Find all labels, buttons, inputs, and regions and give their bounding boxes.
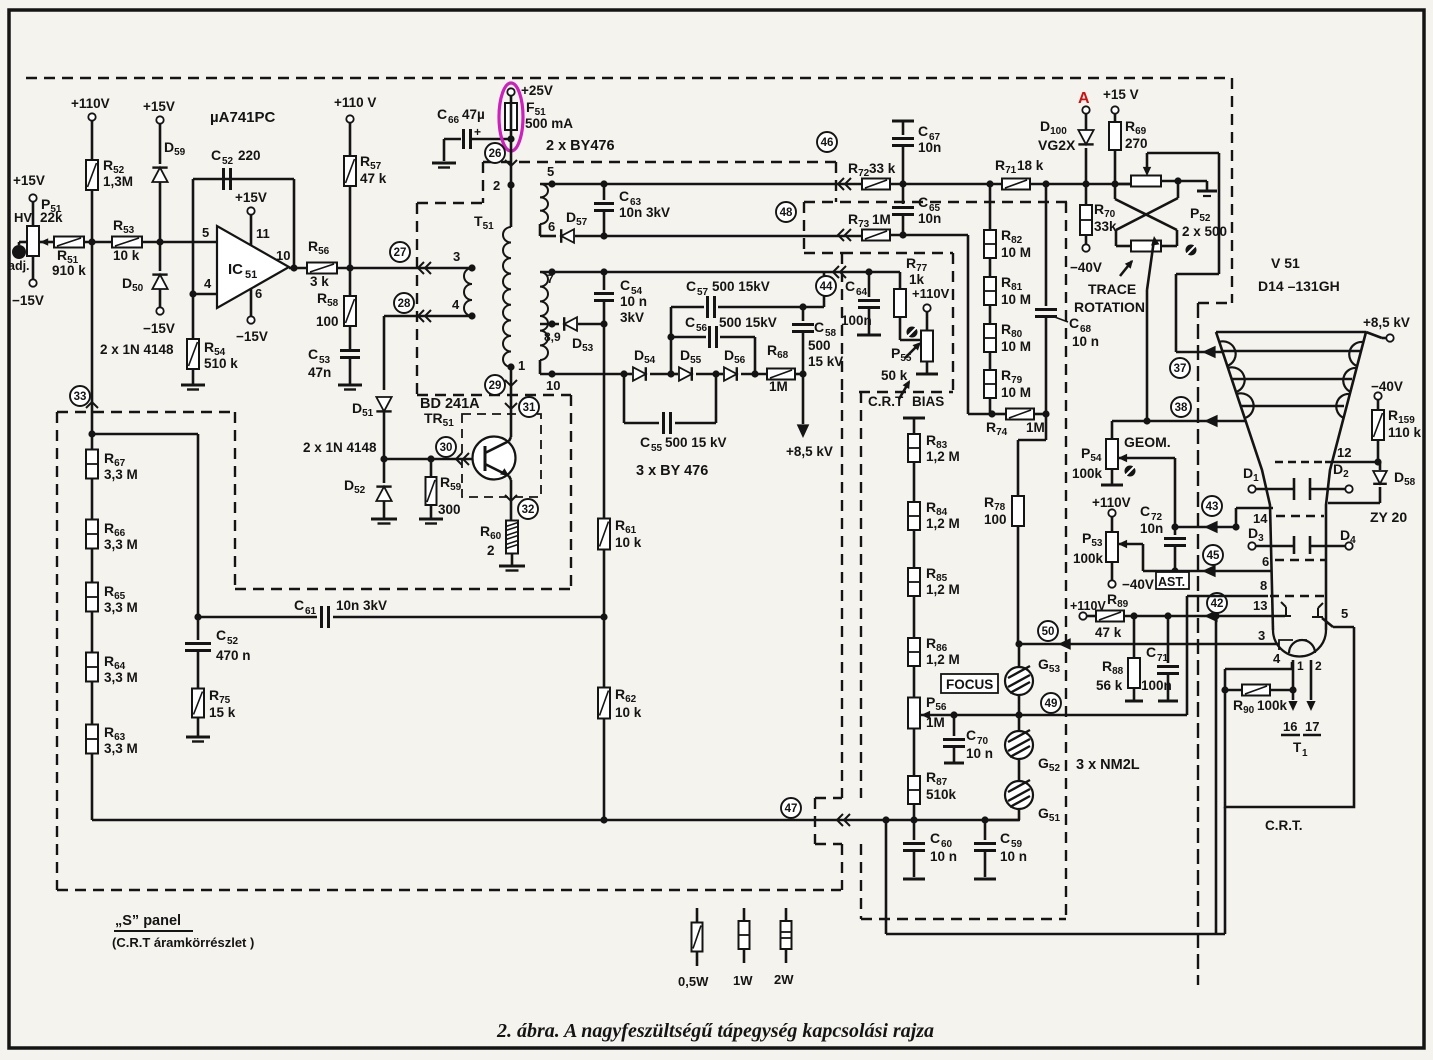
svg-text:10: 10 (546, 378, 560, 393)
svg-text:R57: R57 (360, 153, 382, 172)
node R69 junction (1111, 180, 1118, 187)
svg-text:3 k: 3 k (310, 274, 329, 289)
feedback loop wire (192, 179, 195, 294)
svg-text:51: 51 (245, 269, 257, 281)
dashed oscillator box top edge (417, 202, 483, 204)
resistor R70 33k (1085, 184, 1088, 206)
node chain bottom R74 (988, 410, 995, 417)
terminal +15V D59 column (156, 116, 163, 123)
wire pin6 to D57 (539, 224, 542, 236)
svg-text:2: 2 (487, 543, 495, 558)
node R74 right (1042, 410, 1049, 417)
trace rotation pot P52 lower (1131, 241, 1161, 252)
capacitor C52 220 feedback (222, 168, 225, 190)
svg-text:C: C (640, 434, 650, 450)
resistor R87 510k (908, 776, 920, 804)
diode D58 ZY20 (1379, 462, 1382, 470)
wire line 4 to winding (418, 315, 472, 318)
svg-text:1M: 1M (1026, 420, 1045, 435)
svg-text:6: 6 (1262, 554, 1269, 569)
node 31 circle (519, 397, 539, 417)
svg-text:33: 33 (74, 391, 87, 403)
svg-text:R53: R53 (113, 217, 135, 236)
svg-text:100k: 100k (1257, 698, 1288, 713)
dashed S panel left edge (56, 412, 58, 890)
node C63 top (600, 180, 607, 187)
svg-text:1,2 M: 1,2 M (926, 449, 960, 464)
svg-text:R90: R90 (1233, 697, 1255, 716)
svg-text:43: 43 (1206, 501, 1219, 513)
node C56 right leg (751, 370, 758, 377)
resistor R78 100 (1012, 496, 1024, 526)
svg-text:100k: 100k (1073, 551, 1104, 566)
svg-text:+25V: +25V (521, 83, 553, 98)
svg-text:42: 42 (1211, 598, 1224, 610)
node R82 riser on line (986, 180, 993, 187)
terminal +15V R69 (1111, 106, 1118, 113)
P54 screwdriver adjust (1125, 466, 1136, 477)
capacitor C61 10n 3kV (198, 616, 317, 619)
svg-text:TR51: TR51 (424, 410, 454, 429)
resistor R85 1,2M (908, 568, 920, 596)
svg-text:R80: R80 (1001, 321, 1023, 340)
svg-text:10 k: 10 k (615, 705, 642, 720)
svg-text:500 15 kV: 500 15 kV (665, 435, 727, 450)
base wire to TR51 (384, 458, 485, 461)
svg-text:R88: R88 (1102, 658, 1124, 677)
49 line riser to pin 8 (1186, 596, 1189, 715)
node divider bottom rail (600, 816, 607, 823)
wire fuse node down to T51 primary (510, 139, 513, 227)
riser C57 row to 44 rail (823, 272, 826, 307)
resistor R74 1M (992, 413, 1006, 416)
CRT socket box (1225, 627, 1354, 807)
svg-text:56 k: 56 k (1096, 678, 1123, 693)
dashed panel boundary top (26, 77, 1232, 79)
svg-text:100: 100 (316, 314, 339, 329)
resistor R89 47k (1096, 611, 1124, 622)
svg-text:1,3M: 1,3M (103, 174, 133, 189)
svg-text:C: C (814, 319, 824, 335)
node rail C59 (981, 816, 988, 823)
svg-text:C: C (1146, 644, 1156, 660)
trace rotation pot P52 2x500 upper (1115, 183, 1131, 186)
svg-text:−15V: −15V (236, 329, 268, 344)
node C64 top (865, 268, 872, 275)
svg-text:7: 7 (547, 272, 554, 286)
svg-text:R79: R79 (1001, 367, 1023, 386)
P55 wiper arrow (905, 344, 919, 358)
svg-text:1,2 M: 1,2 M (926, 652, 960, 667)
resistor R53 10k (112, 237, 142, 248)
dashed 48 channel left edge (803, 202, 805, 253)
svg-text:31: 31 (523, 402, 536, 414)
spark gap G53 (1005, 667, 1033, 695)
dashed inner box around TR51 (462, 414, 541, 497)
terminal +110V P55 (923, 304, 930, 311)
svg-text:33k: 33k (1094, 219, 1117, 234)
svg-text:10n: 10n (918, 140, 941, 155)
wire bottom return to CRT box (885, 820, 888, 934)
node 26 circle (485, 143, 505, 163)
node 50 line G53 junction (1015, 640, 1022, 647)
node C67 bottom on line (899, 180, 906, 187)
spark gap G52 (1005, 731, 1033, 759)
P52 cross wires (1114, 184, 1117, 199)
svg-text:+: + (474, 125, 481, 139)
svg-text:2 x BY476: 2 x BY476 (546, 138, 615, 154)
resistor R58 100 (349, 268, 352, 296)
terminal +110V left (88, 113, 95, 120)
svg-text:FOCUS: FOCUS (946, 677, 993, 692)
svg-text:D2: D2 (1333, 461, 1349, 480)
pin 2 wire with arrow (1310, 660, 1313, 700)
svg-text:30: 30 (440, 442, 453, 454)
svg-text:1,2 M: 1,2 M (926, 516, 960, 531)
opamp pin 4 wire (193, 293, 217, 296)
ground below D52 (371, 518, 397, 521)
svg-text:−40V: −40V (1122, 577, 1154, 592)
svg-text:1M: 1M (872, 212, 891, 227)
svg-text:(C.R.T áramkörrészlet ): (C.R.T áramkörrészlet ) (112, 935, 254, 950)
47 arrow chevrons (837, 814, 843, 826)
node R90 left (1221, 686, 1228, 693)
resistor R65 3,3M (86, 583, 98, 612)
capacitor C63 10n 3kV (603, 184, 606, 200)
capacitor C70 10n (950, 711, 957, 718)
resistor R75 15k (192, 689, 204, 718)
svg-text:BIAS: BIAS (912, 394, 944, 409)
node 27 circle (390, 242, 410, 262)
svg-text:G53: G53 (1038, 656, 1060, 675)
capacitor C60 10n (913, 820, 916, 840)
node 49 G52 junction (1015, 711, 1022, 718)
svg-text:10 n: 10 n (1000, 849, 1027, 864)
svg-text:C: C (620, 277, 630, 293)
CRT BIAS pointer arrow (899, 382, 909, 399)
spark gap G51 (1005, 781, 1033, 809)
fuse F51 500mA with +25V terminal (507, 88, 514, 95)
svg-text:C.R.T.: C.R.T. (1265, 818, 1303, 833)
resistor R51 910k (39, 241, 55, 244)
43 line (1175, 526, 1236, 529)
arrow 33 up-chevron (86, 402, 98, 408)
31 chevron arrow (505, 403, 517, 409)
dashed transistor box top edge (417, 394, 571, 396)
svg-text:TRACE: TRACE (1088, 281, 1136, 297)
magenta highlight ellipse around fuse (499, 83, 523, 151)
transistor TR51 BD241A (473, 437, 516, 480)
svg-text:3,3 M: 3,3 M (104, 670, 138, 685)
wire pin1 down to transistor collector (510, 367, 513, 437)
wire C54 junction down through rail to R61 (603, 324, 606, 519)
potentiometer P53 100k (1106, 532, 1118, 562)
svg-text:R70: R70 (1094, 201, 1116, 220)
bottom rail wire (92, 819, 1020, 822)
svg-text:3 x BY 476: 3 x BY 476 (636, 463, 708, 479)
svg-text:T: T (1293, 740, 1302, 755)
svg-text:5: 5 (547, 164, 554, 179)
terminal -40V P53 (1108, 580, 1115, 587)
svg-text:1: 1 (518, 358, 525, 373)
capacitor C72 10n (1171, 523, 1178, 530)
resistor R159 110k (1372, 410, 1384, 440)
node 42 circle (1207, 593, 1227, 613)
deflection yoke left bumps (1219, 341, 1254, 418)
svg-text:10 n: 10 n (966, 746, 993, 761)
svg-text:D58: D58 (1394, 469, 1416, 488)
svg-text:+15V: +15V (13, 173, 45, 188)
svg-text:C: C (308, 346, 318, 362)
potentiometer P56 1M focus (908, 698, 920, 729)
node R90 right / pin1 (1289, 686, 1296, 693)
resistor R62 10k (598, 688, 610, 719)
svg-text:VG2X: VG2X (1038, 137, 1076, 153)
dashed FOCUS box right edge x=1066 (1065, 202, 1067, 919)
29 chevron arrow (505, 380, 517, 386)
svg-text:R69: R69 (1125, 118, 1147, 137)
deflection yoke right bumps (1336, 342, 1363, 418)
svg-text:10 M: 10 M (1001, 245, 1031, 260)
trace rotation arrow annotation (1120, 261, 1132, 276)
grid 3 bracket (1279, 640, 1307, 650)
svg-text:22k: 22k (40, 210, 63, 225)
node R68/C58 junction (799, 370, 806, 377)
wire R78 to grid line (1017, 526, 1020, 644)
diode D54 BY476 (624, 373, 632, 376)
svg-text:µA741PC: µA741PC (210, 109, 276, 126)
svg-text:„S” panel: „S” panel (115, 913, 181, 929)
svg-text:C: C (619, 188, 629, 204)
legend resistor 2W (785, 908, 788, 921)
svg-text:10n 3kV: 10n 3kV (336, 598, 387, 613)
wire R52 column down to 33 (91, 242, 94, 434)
wire P52 right down to 37 line (1176, 273, 1219, 276)
ground below R75 (186, 736, 210, 739)
svg-text:R59: R59 (440, 474, 462, 493)
svg-text:P52: P52 (1190, 205, 1211, 224)
svg-text:R62: R62 (615, 686, 637, 705)
svg-text:10 M: 10 M (1001, 292, 1031, 307)
48 arrow chevrons (838, 229, 844, 241)
yoke winding lines (1223, 350, 1360, 353)
dash-dot boundary right vertical lower (1197, 303, 1199, 985)
svg-text:64: 64 (856, 287, 868, 298)
svg-text:4: 4 (1273, 651, 1281, 666)
dashed FOCUS box left edge (860, 392, 862, 798)
resistor R73 1M (862, 230, 890, 241)
svg-text:47n: 47n (308, 365, 331, 380)
resistor R80 10M (984, 324, 996, 352)
dashed corridor left edge x=842 (841, 392, 843, 798)
svg-text:C: C (1000, 830, 1010, 846)
cathode arcs (1289, 640, 1315, 653)
terminal A for D100 (1082, 106, 1089, 113)
node C61 junction on divider (600, 613, 607, 620)
node D100 junction (1082, 180, 1089, 187)
svg-text:C: C (686, 278, 696, 294)
svg-text:38: 38 (1175, 402, 1188, 414)
svg-text:16: 16 (1283, 719, 1297, 734)
svg-text:C: C (437, 106, 447, 122)
node P52 top right (1161, 180, 1178, 183)
svg-text:500 15kV: 500 15kV (712, 279, 770, 294)
svg-text:−15V: −15V (143, 321, 175, 336)
winding T51 3-4 feedback coil (464, 268, 472, 316)
dashed S panel bottom edge (57, 889, 841, 891)
resistor R64 3,3M (86, 653, 98, 682)
svg-text:R78: R78 (984, 494, 1006, 513)
svg-text:C: C (294, 597, 304, 613)
resistor R72 33k (862, 179, 890, 190)
resistor R52 1,3M (86, 160, 98, 190)
svg-text:R81: R81 (1001, 274, 1023, 293)
50 line to CRT grid (1019, 643, 1279, 646)
resistor R82 10M (984, 230, 996, 258)
svg-text:V 51: V 51 (1271, 255, 1300, 271)
svg-text:+110V: +110V (912, 286, 950, 301)
svg-text:R82: R82 (1001, 227, 1023, 246)
diode D50 1N4148 (152, 275, 167, 289)
svg-text:R159: R159 (1388, 407, 1415, 426)
capacitor C68 10n (1045, 184, 1048, 306)
opamp pin 11 +15V (247, 207, 254, 214)
svg-text:+8,5 kV: +8,5 kV (1363, 315, 1410, 330)
svg-text:3: 3 (453, 249, 460, 264)
svg-text:3: 3 (1258, 628, 1265, 643)
svg-text:D1: D1 (1243, 465, 1259, 484)
dashed transistor box right edge (570, 395, 572, 589)
node D59/D50 junction on input line (156, 238, 163, 245)
svg-text:14: 14 (1253, 511, 1268, 526)
28 arrow chevrons (418, 310, 424, 322)
node D53 C54 junction (600, 320, 607, 327)
dashed line 48 channel top (804, 201, 1067, 203)
svg-text:1: 1 (1302, 748, 1308, 759)
svg-text:C: C (966, 727, 976, 743)
svg-text:3,3 M: 3,3 M (104, 467, 138, 482)
node R88 top (1130, 612, 1137, 619)
svg-text:47 k: 47 k (1095, 625, 1122, 640)
svg-text:50: 50 (1042, 626, 1055, 638)
resistor R56 3k (307, 263, 337, 274)
wire R73 line down to R74 (967, 235, 970, 414)
ground below R54 (181, 384, 205, 387)
FOCUS label box (941, 674, 998, 693)
node output/R57/R58 (346, 264, 353, 271)
CRT funnel outline (1216, 331, 1366, 334)
svg-text:18 k: 18 k (1017, 158, 1044, 173)
svg-text:R71: R71 (995, 157, 1017, 176)
capacitor C57 500 15kV row (670, 307, 673, 374)
dashed vertical at 46 (835, 162, 837, 202)
wire line 5 rail to R72 (540, 183, 862, 186)
node 47 circle (781, 798, 801, 818)
dashed oscillator box left edge (416, 203, 418, 395)
svg-text:R60: R60 (480, 523, 502, 542)
svg-text:17: 17 (1305, 719, 1319, 734)
resistor R77 1k (899, 272, 902, 290)
svg-text:10n: 10n (1140, 521, 1163, 536)
pin 1 wire with arrow (1292, 660, 1295, 700)
svg-text:2 x 1N 4148: 2 x 1N 4148 (303, 440, 377, 455)
svg-text:C: C (845, 278, 855, 294)
svg-text:C: C (1140, 503, 1150, 519)
dashed 47 entry notch (815, 797, 842, 799)
wire box bottom to rail riser (1224, 807, 1227, 934)
svg-text:+110 V: +110 V (334, 95, 376, 110)
svg-text:P54: P54 (1081, 445, 1102, 464)
wire into R67 chain (91, 434, 94, 450)
svg-text:510 k: 510 k (204, 356, 238, 371)
CRT neck bottom arc (1273, 630, 1326, 657)
terminal +110V P53 (1108, 509, 1115, 516)
svg-text:46: 46 (821, 137, 834, 149)
P52 right vertical (1218, 153, 1221, 274)
deflection plates D1 D2 (1293, 478, 1296, 500)
svg-text:470 n: 470 n (216, 648, 251, 663)
svg-text:G51: G51 (1038, 805, 1060, 824)
resistor R88 56k (1133, 616, 1136, 658)
wire C52-470n column (197, 434, 200, 640)
svg-text:49: 49 (1045, 698, 1058, 710)
wire 43 to electrode 14 (1232, 523, 1239, 530)
ground below R59 (419, 518, 443, 521)
capacitor C59 10n (984, 820, 987, 840)
svg-text:33 k: 33 k (869, 161, 896, 176)
wire 28 line to D51 branch (384, 315, 418, 318)
svg-text:D100: D100 (1040, 118, 1067, 137)
+8,5kV anode terminal (1366, 332, 1382, 338)
dashed corridor left edge below notch (841, 844, 843, 890)
svg-text:500 15kV: 500 15kV (719, 315, 777, 330)
30 arrow chevrons (456, 453, 462, 465)
svg-text:C: C (930, 830, 940, 846)
node rail/886 riser (882, 816, 889, 823)
node pin 1 of T51 (507, 363, 514, 370)
node pin 5 (548, 180, 555, 187)
diode D55 BY476 (671, 373, 678, 376)
svg-text:100k: 100k (1072, 466, 1103, 481)
svg-text:D3: D3 (1248, 525, 1264, 544)
dashed boundary jog at right (1198, 302, 1232, 304)
svg-text:2: 2 (493, 178, 500, 193)
svg-text:D14 –131GH: D14 –131GH (1258, 278, 1340, 294)
svg-text:ROTATION: ROTATION (1074, 299, 1145, 315)
svg-text:15 k: 15 k (209, 705, 236, 720)
diode D100 VG2X (1078, 130, 1093, 144)
42 line R89 (1079, 612, 1086, 619)
svg-text:110 k: 110 k (1388, 425, 1422, 440)
resistor R57 47k (344, 156, 356, 186)
svg-text:270: 270 (1125, 136, 1148, 151)
svg-text:+8,5 kV: +8,5 kV (786, 444, 833, 459)
AST label box (1156, 572, 1189, 589)
node 42 junction (1212, 612, 1219, 619)
capacitor C54 10n 3kV (603, 272, 606, 290)
grid 5 hook (1312, 603, 1323, 617)
svg-text:5: 5 (1341, 606, 1348, 621)
svg-text:50 k: 50 k (881, 368, 908, 383)
svg-text:D52: D52 (344, 477, 366, 496)
dashed vertical left of oscillator box (482, 162, 484, 203)
P52 screwdriver adjust (1186, 245, 1197, 256)
svg-text:3,3 M: 3,3 M (104, 537, 138, 552)
terminal -40V below R70 (1082, 244, 1089, 251)
svg-text:P53: P53 (1082, 530, 1103, 549)
svg-text:2: 2 (1315, 659, 1322, 673)
svg-text:27: 27 (394, 247, 407, 259)
